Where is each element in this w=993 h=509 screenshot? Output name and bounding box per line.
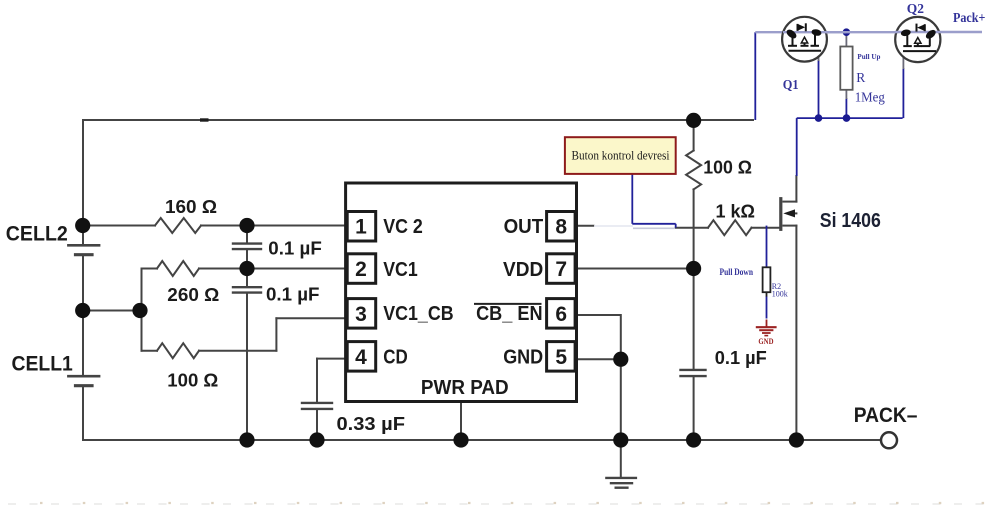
svg-text:0.1 µF: 0.1 µF [268,238,322,258]
svg-text:100k: 100k [772,290,788,299]
svg-text:PWR PAD: PWR PAD [421,377,509,399]
svg-text:CELL1: CELL1 [12,352,74,375]
svg-text:Q1: Q1 [783,78,799,93]
svg-text:1 kΩ: 1 kΩ [716,201,756,221]
svg-text:8: 8 [555,216,567,239]
svg-text:VC1: VC1 [383,259,418,281]
svg-text:0.33 µF: 0.33 µF [337,414,406,434]
svg-text:PACK–: PACK– [854,404,918,427]
svg-text:Pack+: Pack+ [953,11,985,26]
svg-text:1: 1 [355,216,367,239]
svg-text:5: 5 [555,346,567,369]
svg-text:4: 4 [355,346,367,369]
svg-text:VC 2: VC 2 [383,216,423,238]
svg-text:CB_ EN: CB_ EN [476,303,542,325]
svg-text:CELL2: CELL2 [6,222,68,245]
svg-text:260 Ω: 260 Ω [167,285,219,305]
svg-text:0.1 µF: 0.1 µF [715,348,767,368]
svg-text:100 Ω: 100 Ω [703,157,752,177]
svg-text:CD: CD [383,347,408,369]
svg-text:1Meg: 1Meg [855,89,885,104]
svg-text:160 Ω: 160 Ω [165,197,217,217]
svg-text:VDD: VDD [503,259,543,281]
svg-text:VC1_CB: VC1_CB [383,303,453,325]
svg-text:7: 7 [555,258,567,281]
svg-text:100 Ω: 100 Ω [167,371,218,391]
svg-text:2: 2 [355,258,367,281]
svg-text:6: 6 [555,303,567,326]
svg-text:0.1 µF: 0.1 µF [266,284,320,304]
svg-text:R: R [856,70,865,85]
svg-text:Q2: Q2 [907,2,924,17]
svg-text:GND: GND [503,347,543,369]
svg-text:OUT: OUT [504,216,544,238]
svg-text:Buton kontrol devresi: Buton kontrol devresi [572,147,670,162]
svg-text:3: 3 [355,303,367,326]
svg-text:Pull Up: Pull Up [857,52,880,61]
svg-text:Pull Down: Pull Down [720,267,754,277]
svg-text:GND: GND [758,336,773,346]
svg-text:Si 1406: Si 1406 [820,209,881,232]
